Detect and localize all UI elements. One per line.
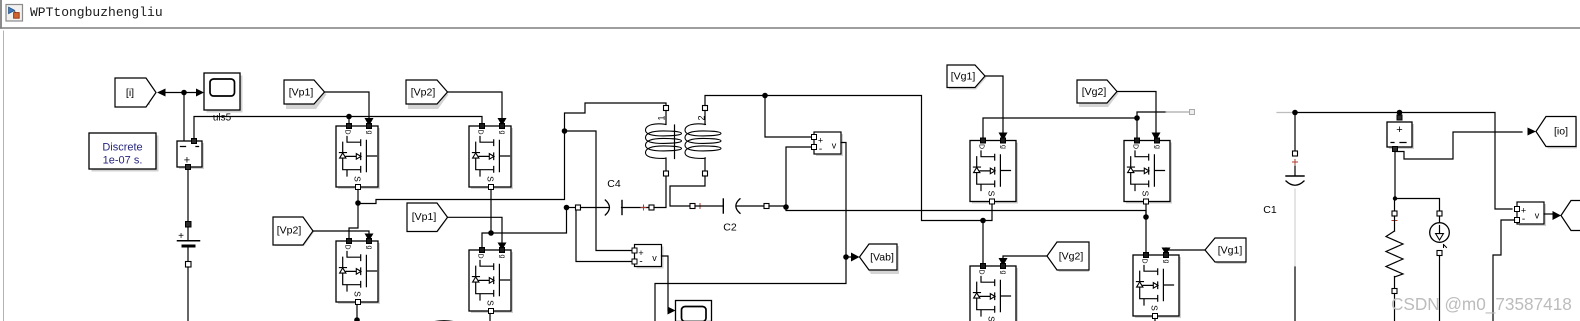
arrow into Q5 gate <box>999 133 1008 141</box>
svg-text:uls5: uls5 <box>213 113 232 124</box>
arrow into Q6 gate <box>1152 133 1161 141</box>
wire: Q6 source to Q8 drain <box>1145 204 1147 253</box>
svg-text:[Vp1]: [Vp1] <box>412 211 437 223</box>
svg-text:CSDN @m0_73587418: CSDN @m0_73587418 <box>1391 294 1572 314</box>
wire: meter out to io tag <box>1395 132 1522 159</box>
wire: Vp1 to Q1 gate <box>325 92 370 119</box>
title bar window border <box>0 0 2 28</box>
label C2 <box>723 222 737 234</box>
junction Q6 drain bus <box>1134 115 1140 121</box>
svg-text:+: + <box>1396 124 1402 136</box>
wire: meter bottom to load <box>1395 152 1440 212</box>
arrow into Q3 gate <box>365 234 374 242</box>
title separator line <box>0 27 1580 29</box>
wire: Q5 source to node D <box>983 204 992 221</box>
svg-text:[Vg2]: [Vg2] <box>1059 251 1084 263</box>
mosfet Q7 <box>970 264 1018 321</box>
mosfet Q4 <box>469 248 513 314</box>
arrow into scope2 <box>668 307 676 315</box>
mosfet Q8 <box>1133 253 1181 319</box>
wire: Vg1 to Q8 gate <box>1166 248 1205 250</box>
wire: V3 output to edge tag <box>1544 213 1553 215</box>
wire: coil2 top to rectifier riser <box>705 96 983 221</box>
junction node C <box>783 204 789 210</box>
junction load bus meter <box>1397 110 1403 116</box>
mosfet Q2 <box>469 124 513 190</box>
junction load bus C1 <box>1292 110 1298 116</box>
wire: current meas + up to DC bus <box>194 117 482 139</box>
capacitor C2 <box>690 199 769 214</box>
wire: Vg2 to Q6 gate <box>1117 92 1156 134</box>
wire: node A to Q3 drain <box>349 203 358 239</box>
wire: Q8 source down <box>1154 319 1156 321</box>
junction Vab <box>843 254 849 260</box>
arrow into scope uls5 <box>196 89 204 97</box>
label C1 <box>1263 204 1277 216</box>
canvas left border <box>3 31 5 321</box>
resistor R1 <box>1386 199 1403 294</box>
junction coil2 top node <box>762 93 768 99</box>
arrow into Q4 gate <box>498 243 507 251</box>
label uls5 <box>213 113 232 124</box>
wire: V3 minus to rail <box>1493 220 1515 321</box>
svg-text:[Vp2]: [Vp2] <box>411 87 436 99</box>
wire: V2 output to Vab node <box>655 143 846 321</box>
arrow into Q2 gate <box>498 118 507 126</box>
goto tag [io] <box>1536 117 1577 149</box>
wire: node C to rectifier lower bus <box>786 207 1146 215</box>
goto tag at right edge <box>1561 201 1580 231</box>
wire: junction to Vab tag <box>846 256 851 258</box>
scope uls5 <box>204 73 243 113</box>
wire: Vp2 to Q2 gate <box>448 92 503 119</box>
wire: node i down to current measurement <box>183 93 185 142</box>
wire: C4 node down to V1 minus input <box>576 209 631 262</box>
junction bottom rail left <box>354 317 360 321</box>
from tag [Vp2] bottom <box>273 217 315 246</box>
wire: bus stub to open end <box>1137 112 1166 118</box>
wire: C2 right to node C <box>769 205 786 207</box>
svg-text:[Vg1]: [Vg1] <box>1218 245 1243 257</box>
wire: Vg1 to Q5 gate <box>985 76 1003 133</box>
wire: C1 bottom to rail <box>1294 267 1296 321</box>
wire: rectifier DC top bus <box>983 118 1137 138</box>
wire: node C up to V2 minus <box>786 147 811 207</box>
arrow into tag [i] <box>157 89 166 97</box>
wire: load top bus <box>1295 113 1512 210</box>
mosfet Q6 <box>1124 138 1172 204</box>
svg-text:[Vg1]: [Vg1] <box>951 71 976 83</box>
watermark <box>1391 294 1572 314</box>
wire: Q2 source to node B <box>490 190 492 234</box>
wire: Q4 source down <box>489 314 491 321</box>
label C4 <box>607 178 621 190</box>
voltage measurement V1 (left, into scope) <box>632 245 664 269</box>
dc current source S1 <box>1430 211 1450 256</box>
wire: source bottom to rail <box>1439 256 1441 321</box>
wire: DC bus drop to Q1 drain <box>348 117 350 124</box>
junction node T1 top (dot1) <box>562 128 568 134</box>
junction node i <box>181 90 187 96</box>
from tag [Vp1] top <box>284 80 327 109</box>
svg-text:Discrete: Discrete <box>102 142 142 154</box>
capacitor C1 <box>1286 113 1304 186</box>
goto tag [Vab] <box>860 244 900 274</box>
svg-text:C1: C1 <box>1263 204 1277 216</box>
wire: Vp2 to Q3 gate <box>313 231 369 236</box>
from tag [Vg2] top <box>1077 80 1119 107</box>
junction meter bottom <box>1393 196 1397 200</box>
svg-text:C4: C4 <box>607 178 621 190</box>
mosfet Q1 <box>336 124 380 190</box>
svg-text:1: 1 <box>657 115 667 120</box>
powergui block Discrete <box>89 133 159 172</box>
svg-text:[Vp1]: [Vp1] <box>289 87 314 99</box>
wire: Vg2 to Q7 gate <box>1003 256 1047 259</box>
arrow into Q8 gate <box>1162 248 1171 256</box>
transformer coil 2 <box>685 106 721 177</box>
svg-text:[i]: [i] <box>126 87 134 99</box>
wire: Q3 source down <box>356 305 358 319</box>
wire: node B to Q4 drain <box>482 233 491 248</box>
arrow into io tag <box>1528 128 1537 136</box>
wire: current meas bottom to battery <box>187 170 189 223</box>
voltage measurement V3 (load) <box>1515 202 1547 226</box>
voltage measurement V2 (right of transformer) <box>812 132 844 156</box>
mosfet Q5 <box>970 138 1018 204</box>
junction DC bus at Q1 drain <box>346 114 352 120</box>
wire: V1 output to scope2 <box>662 256 669 311</box>
svg-text:1e-07 s.: 1e-07 s. <box>103 155 143 167</box>
current measurement I2 <box>1387 115 1414 152</box>
svg-text:[Vab]: [Vab] <box>870 252 894 264</box>
junction node A <box>355 200 361 206</box>
wire: bus to meter top <box>1399 113 1401 116</box>
current measurement block I1 <box>177 139 204 170</box>
transformer coil 1 <box>646 106 682 177</box>
junction node C4 left (dot2) <box>564 205 570 211</box>
svg-text:[Vg2]: [Vg2] <box>1082 86 1107 98</box>
wire: resistor bottom to rail <box>1394 294 1396 321</box>
arrow into Q1 gate <box>365 118 374 126</box>
wire: Vp1 to Q4 gate <box>448 217 503 244</box>
junction node D <box>980 218 986 224</box>
wire: coil2 bottom to C2 left <box>670 176 705 206</box>
wire: dot2 to C4 left port <box>567 207 576 209</box>
mosfet Q3 <box>336 239 380 305</box>
from tag [Vg1] top <box>947 65 987 90</box>
DC voltage source battery E1 <box>178 222 200 268</box>
title text <box>30 5 163 20</box>
wire: C4 right to coil1 bottom <box>654 176 666 208</box>
simulink model icon <box>6 5 23 22</box>
from tag [Vg1] bottom <box>1205 238 1246 264</box>
wire: Q1 source to node A <box>357 190 359 204</box>
wire: node i to tag and scope <box>163 92 197 94</box>
wire: dot1 up to coil1 top <box>565 103 667 131</box>
arrow into goto tag Vab <box>851 253 860 262</box>
arrow into edge tag <box>1553 211 1562 220</box>
goto tag [i] <box>115 78 156 107</box>
wire: open gray end <box>1166 110 1195 115</box>
wire: C1 bottom faint <box>1294 189 1296 267</box>
scope2 <box>676 301 712 321</box>
wire: battery negative down off-screen <box>187 267 189 321</box>
wire: node B to C4 node <box>491 208 567 234</box>
junction node E <box>1143 214 1149 220</box>
wire: node D to Q7 drain <box>982 221 984 264</box>
wire: gray lead into load bus <box>1277 112 1295 114</box>
transformer core <box>674 125 676 159</box>
svg-text:C2: C2 <box>723 222 737 234</box>
from tag [Vp2] top <box>406 80 449 109</box>
wire: coil2 node down to V2 plus <box>765 96 811 138</box>
svg-text:[Vp2]: [Vp2] <box>277 225 302 237</box>
svg-text:WPTtongbuzhengliu: WPTtongbuzhengliu <box>30 5 163 20</box>
arrow into Q7 gate <box>999 258 1008 266</box>
svg-text:2: 2 <box>697 115 707 120</box>
wire: dot1 to V1 plus input <box>565 131 632 251</box>
from tag [Vp1] bottom <box>407 203 449 232</box>
port: meter bottom <box>186 165 191 170</box>
wire: node A to transformer node <box>358 131 565 204</box>
from tag [Vg2] bottom <box>1047 242 1089 272</box>
capacitor C4 <box>576 200 655 215</box>
junction node B <box>488 230 494 236</box>
svg-text:[io]: [io] <box>1554 126 1568 138</box>
